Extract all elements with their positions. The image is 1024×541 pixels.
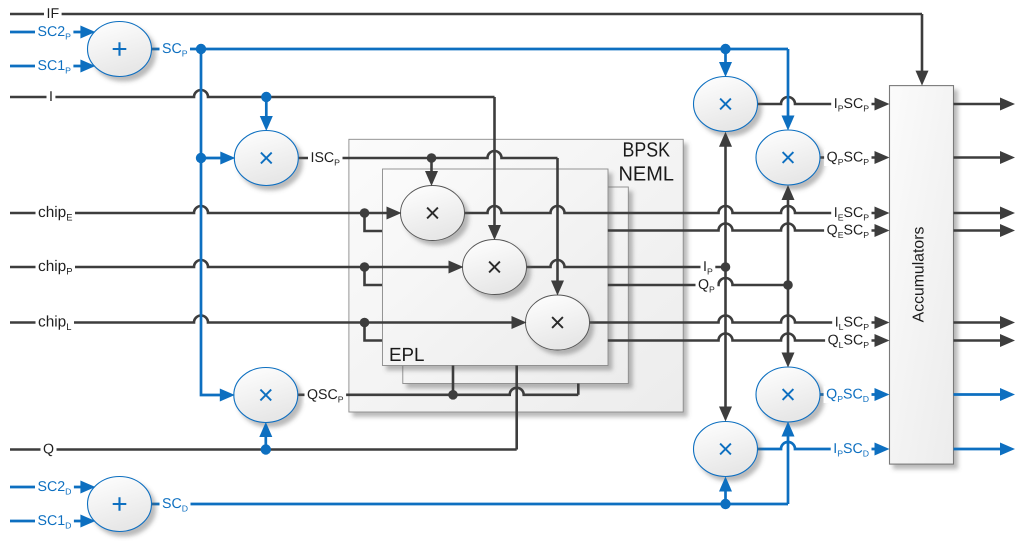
svg-text:I: I <box>49 89 53 105</box>
svg-text:Q: Q <box>43 442 54 458</box>
svg-text:QESCP: QESCP <box>827 223 870 241</box>
svg-text:NEML: NEML <box>619 163 675 186</box>
svg-text:EPL: EPL <box>389 345 425 366</box>
svg-text:QPSCP: QPSCP <box>827 150 870 168</box>
svg-text:Accumulators: Accumulators <box>911 227 928 323</box>
svg-text:IF: IF <box>47 6 60 22</box>
svg-text:BPSK: BPSK <box>623 139 671 162</box>
svg-text:QPSCD: QPSCD <box>826 387 869 405</box>
svg-text:QLSCP: QLSCP <box>828 333 870 351</box>
